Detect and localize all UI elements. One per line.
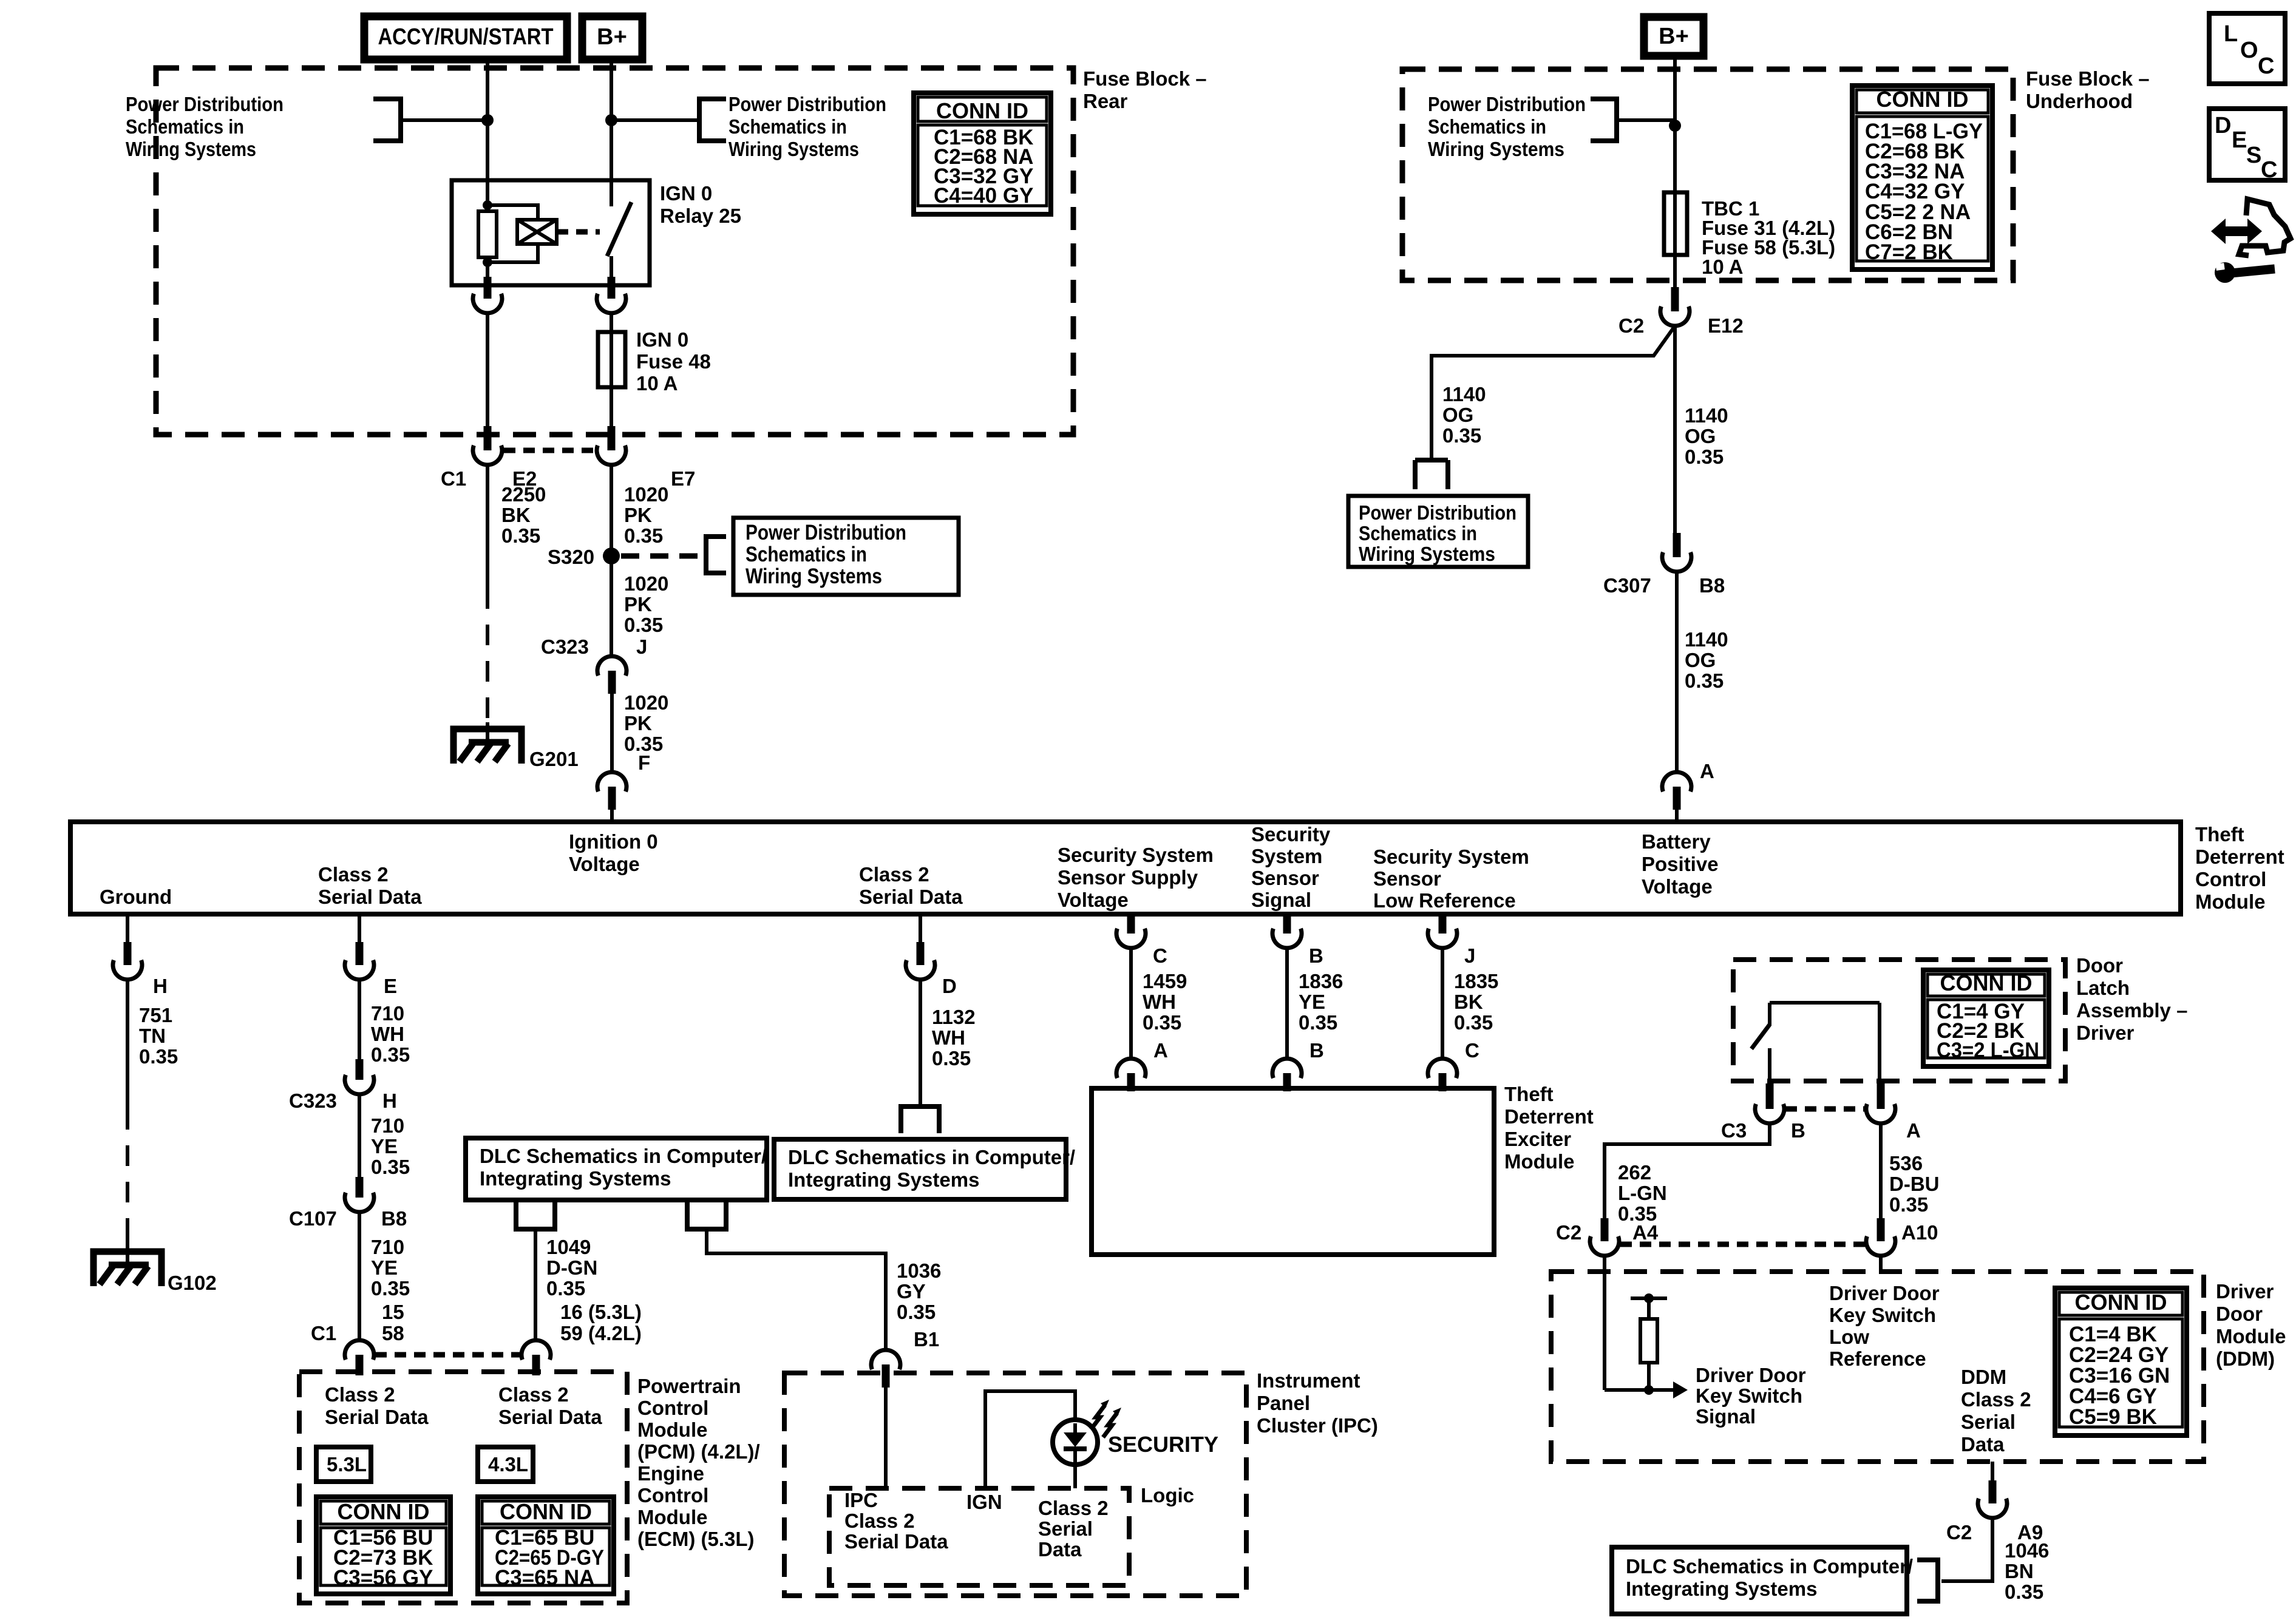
instrument panel cluster dashed box — [784, 1373, 1246, 1596]
svg-text:A10: A10 — [1901, 1221, 1938, 1244]
bracket below DLC1 left — [516, 1200, 555, 1229]
svg-text:C5=9 BK: C5=9 BK — [2069, 1405, 2157, 1429]
svg-text:Class 2: Class 2 — [859, 863, 929, 886]
power distribution reference box (underhood) — [1348, 496, 1528, 567]
svg-text:Serial Data: Serial Data — [318, 886, 422, 908]
svg-text:Signal: Signal — [1251, 889, 1311, 911]
CONN ID table fuse block underhood — [1852, 86, 1992, 269]
wire relay to fuse 48 — [610, 313, 613, 332]
node junction dot underhood — [1669, 120, 1681, 132]
svg-text:C: C — [1153, 944, 1167, 967]
svg-text:BK: BK — [501, 504, 531, 526]
svg-text:L-GN: L-GN — [1618, 1182, 1667, 1204]
svg-text:Cluster (IPC): Cluster (IPC) — [1257, 1414, 1378, 1437]
wire B1 into IPC — [884, 1388, 888, 1488]
svg-text:Module: Module — [2216, 1325, 2286, 1347]
wire sensor J — [1441, 948, 1444, 1059]
svg-text:Control: Control — [2195, 868, 2266, 890]
wire ACCY to relay 25 — [486, 58, 489, 180]
relay coil wire top — [486, 180, 489, 211]
wire C323 to C107 — [358, 1094, 361, 1177]
svg-text:Key Switch: Key Switch — [1829, 1304, 1936, 1326]
DLC schematics reference box 2 — [774, 1139, 1066, 1199]
wire C107 to PCM — [358, 1212, 361, 1340]
connector B1 — [871, 1350, 900, 1369]
ground G102 — [93, 1252, 161, 1286]
svg-text:0.35: 0.35 — [1685, 669, 1724, 692]
svg-text:1836: 1836 — [1299, 970, 1343, 992]
svg-text:Schematics in: Schematics in — [1428, 115, 1546, 138]
wire bracket to left node — [401, 118, 487, 122]
svg-text:0.35: 0.35 — [624, 524, 663, 547]
wire B to A4 — [1605, 1123, 1770, 1218]
bracket to mid power distribution — [699, 99, 726, 141]
CONN ID table door latch — [1923, 970, 2049, 1066]
svg-text:1132: 1132 — [932, 1006, 976, 1028]
svg-text:Voltage: Voltage — [569, 853, 640, 875]
svg-text:D-GN: D-GN — [546, 1256, 597, 1279]
svg-text:TN: TN — [139, 1025, 166, 1047]
svg-text:0.35: 0.35 — [371, 1277, 410, 1300]
svg-text:Deterrent: Deterrent — [2195, 846, 2284, 868]
svg-text:B8: B8 — [1699, 574, 1725, 597]
svg-text:Schematics in: Schematics in — [729, 115, 847, 138]
svg-text:YE: YE — [1299, 991, 1325, 1013]
connector H — [124, 942, 132, 965]
svg-text:0.35: 0.35 — [371, 1156, 410, 1178]
svg-text:Class 2: Class 2 — [844, 1510, 915, 1532]
door latch switch wire top — [1770, 1001, 1880, 1005]
svg-text:Control: Control — [637, 1484, 708, 1506]
dashed link A4-A10 — [1620, 1242, 1865, 1247]
svg-text:C: C — [1465, 1039, 1479, 1062]
connector C107 B8 — [356, 1177, 364, 1198]
connector B (module) — [1283, 915, 1291, 934]
svg-text:Wiring Systems: Wiring Systems — [1359, 543, 1495, 565]
svg-text:Logic: Logic — [1141, 1484, 1194, 1506]
power feed box B+ (rear) — [582, 16, 642, 59]
svg-text:Serial: Serial — [1038, 1517, 1093, 1540]
relay switch bottom contact — [610, 256, 613, 285]
wire A10 into DDM — [1879, 1256, 1883, 1272]
wire E7 to S320 — [610, 465, 613, 564]
svg-text:Class 2: Class 2 — [1961, 1388, 2031, 1411]
svg-text:Ignition 0: Ignition 0 — [569, 830, 658, 853]
wire A to A10 — [1879, 1123, 1883, 1218]
svg-text:YE: YE — [371, 1135, 398, 1157]
wire fuse 48 to E7 — [610, 387, 613, 427]
svg-text:Theft: Theft — [2195, 823, 2244, 846]
svg-text:B: B — [1309, 1039, 1324, 1062]
svg-text:710: 710 — [371, 1236, 404, 1258]
connector C2 E12 — [1671, 287, 1679, 311]
svg-text:4.3L: 4.3L — [488, 1453, 528, 1476]
svg-text:Voltage: Voltage — [1642, 875, 1713, 898]
svg-text:1459: 1459 — [1143, 970, 1187, 992]
svg-text:Integrating Systems: Integrating Systems — [1626, 1578, 1817, 1600]
svg-text:Security: Security — [1251, 823, 1331, 846]
svg-text:Powertrain: Powertrain — [637, 1375, 741, 1397]
wire TBC fuse to E12 — [1673, 255, 1677, 287]
wire into G102 — [126, 1223, 129, 1265]
engine variant box 5.3L — [316, 1447, 371, 1482]
svg-text:Driver Door: Driver Door — [1829, 1282, 1940, 1304]
svg-text:DLC Schematics in Computer/: DLC Schematics in Computer/ — [788, 1146, 1075, 1168]
svg-text:0.35: 0.35 — [1454, 1011, 1493, 1034]
relay coil parallel loop — [487, 205, 538, 262]
connector A10 — [1877, 1218, 1885, 1241]
navigation icon outline — [2239, 199, 2291, 256]
svg-text:PK: PK — [624, 504, 652, 526]
connector C2 A4 — [1601, 1218, 1609, 1241]
svg-text:Schematics in: Schematics in — [746, 543, 867, 566]
svg-text:Rear: Rear — [1083, 90, 1128, 112]
bracket below DLC1 right — [687, 1200, 726, 1229]
connector C1 PCM — [345, 1340, 374, 1360]
svg-text:PK: PK — [624, 712, 652, 734]
wire DLC1 to IPC B1 — [707, 1229, 886, 1350]
connector J (module) — [1439, 915, 1447, 934]
svg-text:Module: Module — [637, 1506, 707, 1528]
svg-text:Driver Door: Driver Door — [1696, 1364, 1806, 1386]
wire H down — [126, 980, 129, 1109]
svg-text:0.35: 0.35 — [1299, 1011, 1337, 1034]
DDM resistor top junction dot — [1644, 1293, 1654, 1303]
svg-text:Sensor Supply: Sensor Supply — [1058, 866, 1198, 889]
svg-text:B+: B+ — [597, 24, 627, 50]
svg-text:0.35: 0.35 — [1889, 1193, 1928, 1216]
LOC reference box — [2209, 13, 2285, 84]
door latch switch right wire — [1878, 1003, 1881, 1085]
svg-text:Schematics in: Schematics in — [126, 115, 244, 138]
wire C323 to F — [610, 694, 614, 772]
connector A — [1662, 772, 1691, 791]
svg-text:Integrating Systems: Integrating Systems — [788, 1168, 979, 1191]
DDM resistor top tee — [1647, 1298, 1651, 1319]
connector E7 — [608, 426, 616, 450]
wire F into module — [610, 810, 614, 822]
svg-text:Power Distribution: Power Distribution — [729, 93, 886, 115]
svg-text:C307: C307 — [1603, 574, 1651, 597]
svg-text:OG: OG — [1442, 404, 1473, 426]
svg-text:(DDM): (DDM) — [2216, 1347, 2275, 1370]
svg-text:Security System: Security System — [1058, 844, 1214, 866]
wire A into module — [1675, 810, 1679, 822]
svg-text:S320: S320 — [548, 546, 594, 568]
DLC schematics reference box 3 — [1612, 1547, 1907, 1614]
relay switch blade — [607, 202, 631, 256]
svg-text:E: E — [384, 975, 397, 997]
svg-text:Positive: Positive — [1642, 853, 1719, 875]
svg-text:L: L — [2224, 21, 2238, 47]
svg-text:0.35: 0.35 — [1442, 424, 1481, 447]
wire bracket to underhood node — [1617, 118, 1675, 122]
LED security indicator — [1053, 1420, 1098, 1465]
svg-text:Ground: Ground — [100, 886, 172, 908]
wire E12 branch diagonal — [1432, 326, 1675, 460]
node junction dot right — [605, 114, 617, 126]
ground G201 — [453, 729, 521, 764]
svg-text:F: F — [638, 751, 650, 774]
svg-text:0.35: 0.35 — [371, 1043, 410, 1066]
connector C1 E2 — [484, 426, 492, 450]
theft deterrent exciter module box — [1092, 1088, 1494, 1255]
svg-text:Integrating Systems: Integrating Systems — [480, 1167, 671, 1190]
svg-text:WH: WH — [371, 1023, 404, 1045]
svg-text:C1: C1 — [311, 1322, 336, 1344]
svg-text:C7=2 BK: C7=2 BK — [1865, 240, 1953, 264]
svg-text:C4=40 GY: C4=40 GY — [934, 184, 1033, 208]
svg-text:10 A: 10 A — [1702, 256, 1743, 278]
svg-text:1140: 1140 — [1442, 383, 1486, 405]
connector C307 B8 — [1673, 533, 1681, 557]
svg-text:0.35: 0.35 — [501, 524, 540, 547]
svg-text:0.35: 0.35 — [1685, 446, 1724, 468]
svg-text:2250: 2250 — [501, 483, 546, 506]
svg-text:710: 710 — [371, 1002, 404, 1025]
svg-text:Class 2: Class 2 — [498, 1383, 569, 1406]
svg-text:Battery: Battery — [1642, 830, 1711, 853]
bracket to left power distribution — [373, 99, 401, 141]
wire DDM to C2 A9 — [1991, 1462, 1994, 1480]
svg-text:YE: YE — [371, 1256, 398, 1279]
connector C3 B — [1766, 1083, 1774, 1109]
wire A9 to DLC3 — [1941, 1518, 1992, 1581]
svg-text:B1: B1 — [914, 1328, 939, 1351]
fuse block - rear dashed outline — [156, 68, 1073, 435]
svg-text:0.35: 0.35 — [932, 1047, 971, 1069]
LED cathode bar — [1064, 1446, 1087, 1451]
svg-text:Serial Data: Serial Data — [859, 886, 963, 908]
svg-text:1020: 1020 — [624, 691, 668, 714]
svg-text:1049: 1049 — [546, 1236, 591, 1258]
svg-text:CONN ID: CONN ID — [338, 1499, 430, 1524]
svg-text:Door: Door — [2076, 954, 2123, 977]
svg-text:A: A — [1153, 1039, 1168, 1062]
bracket right of DLC3 — [1917, 1560, 1938, 1601]
door latch switch lower wire — [1768, 1048, 1771, 1085]
svg-text:Sensor: Sensor — [1251, 867, 1319, 889]
svg-text:CONN ID: CONN ID — [2075, 1290, 2167, 1315]
svg-text:Class 2: Class 2 — [325, 1383, 395, 1406]
DDM resistor bottom wire — [1647, 1363, 1651, 1390]
svg-text:BN: BN — [2005, 1560, 2034, 1582]
CONN ID table PCM right — [478, 1497, 614, 1594]
wire S320 down — [610, 556, 613, 656]
fuse block - underhood dashed outline — [1402, 69, 2013, 280]
navigation icon wrench — [2215, 262, 2235, 283]
svg-text:Underhood: Underhood — [2026, 90, 2133, 112]
dashed link S320 to bracket — [621, 554, 699, 559]
svg-text:D-BU: D-BU — [1889, 1173, 1939, 1195]
CONN ID table PCM left — [316, 1497, 450, 1594]
svg-text:Security System: Security System — [1373, 846, 1529, 868]
IPC logic dashed box — [829, 1488, 1129, 1585]
svg-text:IGN 0: IGN 0 — [636, 328, 688, 351]
svg-text:O: O — [2240, 38, 2258, 63]
svg-text:Exciter: Exciter — [1504, 1128, 1571, 1150]
svg-text:Low Reference: Low Reference — [1373, 889, 1516, 912]
svg-text:ACCY/RUN/START: ACCY/RUN/START — [378, 24, 554, 50]
svg-text:10 A: 10 A — [636, 372, 678, 395]
door latch switch blade — [1751, 1025, 1770, 1049]
connector E — [356, 942, 364, 965]
dashed link PCM connectors — [375, 1352, 520, 1358]
svg-text:A: A — [1700, 760, 1714, 782]
connector F — [597, 772, 627, 791]
wire E12 to C307 — [1673, 326, 1677, 534]
svg-text:Wiring Systems: Wiring Systems — [746, 564, 882, 588]
svg-text:A: A — [1906, 1119, 1921, 1142]
svg-text:IPC: IPC — [844, 1489, 878, 1511]
svg-text:Instrument: Instrument — [1257, 1369, 1360, 1392]
powertrain control module dashed box — [299, 1372, 627, 1603]
svg-text:B+: B+ — [1659, 24, 1689, 49]
power feed box ACCY/RUN/START — [364, 16, 567, 59]
connector C exciter — [1428, 1059, 1457, 1078]
navigation icon arrow — [2211, 219, 2262, 244]
connector D — [917, 942, 925, 965]
svg-text:E12: E12 — [1708, 314, 1744, 337]
svg-text:Class 2: Class 2 — [318, 863, 389, 886]
svg-text:Power Distribution: Power Distribution — [1428, 93, 1586, 115]
svg-text:Deterrent: Deterrent — [1504, 1105, 1594, 1128]
power feed box B+ (underhood) — [1644, 17, 1703, 56]
svg-text:Fuse Block –: Fuse Block – — [1083, 67, 1207, 90]
svg-text:Serial Data: Serial Data — [325, 1406, 429, 1428]
svg-text:GY: GY — [897, 1280, 926, 1303]
bracket above DLC2 — [901, 1107, 939, 1133]
svg-text:15: 15 — [382, 1301, 404, 1323]
IGN loop wire — [985, 1391, 1075, 1488]
svg-text:C323: C323 — [289, 1090, 337, 1112]
svg-text:Key Switch: Key Switch — [1696, 1384, 1802, 1407]
svg-text:Driver: Driver — [2076, 1022, 2135, 1044]
connector PCM right — [521, 1340, 551, 1360]
svg-text:Wiring Systems: Wiring Systems — [126, 138, 256, 160]
svg-text:(ECM) (5.3L): (ECM) (5.3L) — [637, 1528, 755, 1550]
bracket to power distribution box — [706, 537, 726, 573]
svg-text:SECURITY: SECURITY — [1108, 1432, 1218, 1457]
svg-text:1020: 1020 — [624, 483, 668, 506]
wire sensor C — [1129, 948, 1133, 1059]
svg-text:C3=65 NA: C3=65 NA — [495, 1566, 594, 1590]
svg-text:J: J — [1464, 944, 1475, 967]
svg-text:1036: 1036 — [897, 1259, 941, 1282]
svg-text:Reference: Reference — [1829, 1347, 1926, 1370]
DDM signal junction dot — [1644, 1385, 1654, 1395]
svg-text:J: J — [636, 635, 647, 658]
wire C307 to A — [1675, 572, 1679, 772]
svg-text:Low: Low — [1829, 1326, 1869, 1348]
svg-text:S: S — [2246, 143, 2261, 168]
svg-text:WH: WH — [1143, 991, 1176, 1013]
node junction dot left — [481, 114, 494, 126]
dashed wire to G201 — [486, 588, 489, 722]
relay coil bottom junction dot — [483, 257, 492, 267]
svg-text:Sensor: Sensor — [1373, 867, 1441, 890]
svg-text:Door: Door — [2216, 1303, 2263, 1325]
svg-text:Serial: Serial — [1961, 1411, 2016, 1433]
svg-text:Data: Data — [1961, 1433, 2005, 1456]
svg-text:C323: C323 — [541, 635, 589, 658]
svg-text:C3=2 L-GN: C3=2 L-GN — [1937, 1039, 2039, 1062]
theft deterrent control module box — [70, 822, 2181, 914]
DLC schematics reference box 1 — [466, 1138, 767, 1200]
svg-text:262: 262 — [1618, 1161, 1651, 1184]
svg-text:Power Distribution: Power Distribution — [746, 521, 906, 544]
svg-text:IGN 0: IGN 0 — [660, 182, 712, 205]
svg-text:E: E — [2232, 127, 2247, 153]
wire into G201 — [486, 722, 489, 742]
svg-text:Module: Module — [637, 1418, 707, 1441]
svg-text:Power Distribution: Power Distribution — [1359, 501, 1517, 524]
door latch assembly dashed box — [1733, 960, 2065, 1081]
wire bracket to right node — [611, 118, 699, 122]
driver door module dashed box — [1551, 1272, 2204, 1462]
svg-text:536: 536 — [1889, 1152, 1923, 1174]
svg-text:B: B — [1791, 1119, 1805, 1142]
wire B+ to TBC fuse — [1673, 58, 1677, 192]
dashed wire to G102 — [126, 1109, 129, 1223]
svg-text:16 (5.3L): 16 (5.3L) — [560, 1301, 642, 1323]
svg-text:Serial Data: Serial Data — [844, 1530, 948, 1553]
svg-text:B8: B8 — [381, 1207, 407, 1230]
svg-text:C2: C2 — [1556, 1221, 1581, 1244]
svg-text:Driver: Driver — [2216, 1280, 2274, 1303]
svg-text:G201: G201 — [529, 748, 579, 770]
svg-text:H: H — [382, 1090, 397, 1112]
relay solenoid valve box — [517, 220, 557, 244]
svg-text:1835: 1835 — [1454, 970, 1498, 992]
connector below relay left — [484, 277, 492, 299]
LED diode triangle — [1064, 1432, 1087, 1447]
svg-text:DLC Schematics in Computer/: DLC Schematics in Computer/ — [480, 1145, 767, 1167]
svg-text:0.35: 0.35 — [624, 614, 663, 636]
svg-text:710: 710 — [371, 1114, 404, 1137]
CONN ID table DDM — [2055, 1288, 2187, 1435]
LED wire inside — [1073, 1449, 1077, 1464]
connector A (door latch) — [1877, 1083, 1885, 1109]
wire sensor B — [1285, 948, 1289, 1059]
connector below relay right — [608, 277, 616, 299]
connector B exciter — [1272, 1059, 1302, 1078]
svg-text:Schematics in: Schematics in — [1359, 522, 1477, 544]
bracket above power distribution box (underhood) — [1415, 460, 1448, 489]
wire E down — [358, 980, 361, 1059]
svg-text:Panel: Panel — [1257, 1392, 1310, 1414]
svg-text:H: H — [153, 975, 168, 997]
svg-text:58: 58 — [382, 1322, 404, 1344]
bracket to underhood power distribution — [1591, 99, 1617, 141]
svg-text:BK: BK — [1454, 991, 1483, 1013]
svg-text:C: C — [2258, 53, 2274, 79]
DDM signal wire with arrow — [1605, 1388, 1674, 1392]
svg-text:Voltage: Voltage — [1058, 889, 1129, 911]
svg-text:0.35: 0.35 — [897, 1301, 936, 1323]
connector A exciter — [1116, 1059, 1146, 1078]
wire D down — [919, 980, 922, 1107]
door latch switch stub — [1768, 1003, 1771, 1026]
svg-text:B: B — [1309, 944, 1323, 967]
svg-text:0.35: 0.35 — [2005, 1581, 2043, 1603]
relay coil top junction dot — [483, 200, 492, 210]
svg-text:751: 751 — [139, 1004, 172, 1026]
DDM key switch resistor — [1640, 1319, 1657, 1363]
wire DLC1 to PCM — [534, 1229, 537, 1340]
svg-text:Engine: Engine — [637, 1462, 704, 1485]
fuse TBC 1 — [1664, 192, 1687, 255]
